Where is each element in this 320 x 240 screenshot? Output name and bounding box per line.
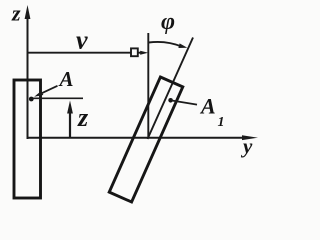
svg-text:1: 1 xyxy=(218,115,225,130)
A1 label xyxy=(199,94,225,130)
svg-text:φ: φ xyxy=(161,9,175,35)
svg-text:v: v xyxy=(76,25,88,54)
rod A1 (tilted) xyxy=(109,77,183,202)
svg-text:z: z xyxy=(77,103,89,132)
A level line xyxy=(33,97,83,99)
angle arc xyxy=(149,42,188,48)
y axis xyxy=(27,135,259,140)
point A dot xyxy=(29,97,34,102)
rod axis line xyxy=(148,38,194,140)
svg-text:z: z xyxy=(11,1,21,26)
svg-text:A: A xyxy=(58,67,74,91)
velocity arrow v xyxy=(28,48,148,56)
z axis xyxy=(25,5,31,139)
A1 pointer line xyxy=(171,100,197,104)
svg-text:A: A xyxy=(199,94,216,119)
point A1 dot xyxy=(168,98,173,103)
A pointer arrow xyxy=(34,86,57,97)
vertical reference line xyxy=(147,33,149,138)
z coordinate arrow xyxy=(67,101,73,139)
rod A (left, vertical) xyxy=(14,80,41,198)
